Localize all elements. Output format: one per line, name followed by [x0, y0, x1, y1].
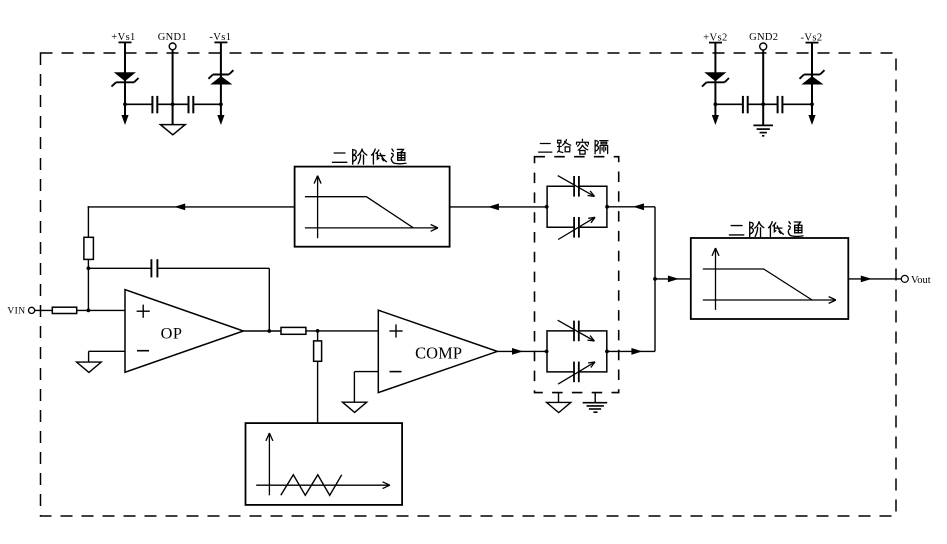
terminal tick +Vs1	[119, 41, 132, 43]
wire +Vs1 vertical	[124, 42, 126, 115]
wire R2 up to feedback corner	[87, 206, 89, 237]
node C at OP output	[267, 329, 271, 333]
outer dashed enclosure border	[41, 53, 897, 516]
label isolation section (er lu rong ge)	[539, 144, 552, 153]
wire R4 down to sweep generator block	[317, 361, 319, 423]
sweep generator block box	[246, 423, 403, 505]
isolation upper variable-capacitor pair unit	[547, 186, 607, 227]
svg-text:Vout: Vout	[911, 275, 931, 286]
wire isolation upper unit to right vertical bus	[607, 206, 655, 208]
wire GND2 vertical	[762, 50, 764, 125]
second low-pass vertical axis	[715, 248, 717, 310]
wire C3 to corner above node C	[157, 267, 269, 269]
second low-pass block box	[691, 238, 849, 319]
second low-pass horizontal axis	[703, 299, 836, 301]
ground symbol under GND1	[160, 125, 185, 135]
node -Vs2 junction	[810, 102, 814, 106]
wire OP inverting input to ground	[89, 350, 125, 352]
zener diode D4 on -Vs2	[801, 76, 823, 84]
node GND2 junction	[761, 102, 765, 106]
ground stub under isolation box right	[594, 393, 596, 403]
wire +Vs2 vertical	[714, 43, 716, 116]
wire decoupling bus left section	[125, 103, 152, 105]
chassis arrow below -Vs2	[808, 115, 815, 125]
resistor R4 to sweep generator	[314, 341, 322, 361]
arrow pointing right out of lower unit	[631, 348, 642, 355]
label second low-pass block (er jie di tong)	[729, 226, 743, 235]
COMP plus sign	[389, 330, 402, 332]
wire R1 to OP + input	[77, 309, 125, 311]
capacitor C2 (GND1 to -Vs1)	[188, 96, 190, 113]
ground symbol at COMP inverting input	[343, 402, 367, 412]
zener diode D2 on -Vs1	[210, 76, 232, 84]
wire node B to capacitor C3	[88, 267, 151, 269]
terminal tick -Vs1	[214, 41, 227, 43]
wire R3 to COMP + input	[306, 330, 378, 332]
wire COMP inverting input to ground	[354, 371, 378, 373]
triangle waveform	[281, 475, 342, 496]
svg-text:VIN: VIN	[7, 306, 25, 316]
capacitor C4 (+Vs2 to GND2)	[742, 96, 744, 113]
earth ground symbol under isolation box (hatched)	[583, 402, 608, 404]
capacitor C3 feedback	[150, 259, 152, 277]
node +Vs1/decoupling junction	[123, 102, 127, 106]
terminal circle GND1	[169, 43, 176, 50]
node +Vs2 junction	[714, 102, 718, 106]
wire OP output to R3	[243, 330, 281, 332]
wire second low-pass to Vout	[848, 278, 901, 280]
OP plus sign	[137, 310, 150, 312]
terminal circle VIN	[29, 307, 35, 313]
zener diode D3 on +Vs2	[704, 72, 726, 81]
arrow on output wire pointing right	[861, 276, 872, 283]
op-amp OP	[125, 290, 243, 373]
wire -Vs2 vertical	[811, 43, 813, 116]
wire node B to R2	[87, 259, 89, 268]
first low-pass horizontal axis	[305, 227, 438, 229]
ground symbol under isolation box (triangle)	[547, 402, 571, 412]
ground stub under isolation box left	[558, 393, 560, 403]
terminal circle GND2	[760, 43, 767, 50]
capacitor C5 (GND2 to -Vs2)	[777, 96, 779, 113]
node B feedback junction	[87, 266, 91, 270]
label first low-pass block (er jie di tong)	[332, 153, 346, 162]
second low-pass response curve	[703, 269, 812, 300]
wire VIN to R1	[35, 309, 53, 311]
isolation lower variable-capacitor pair unit	[547, 331, 607, 372]
svg-text:GND2: GND2	[749, 32, 778, 43]
svg-text:GND1: GND1	[158, 32, 187, 43]
comparator COMP	[378, 310, 497, 392]
arrow on that wire pointing right	[668, 276, 679, 283]
isolation dashed box	[535, 157, 619, 393]
capacitor C1 (+Vs1 to GND1)	[151, 96, 153, 113]
wire -Vs1 vertical	[220, 42, 222, 115]
wire decoupling bus right section	[715, 103, 743, 105]
wire bus node to second low-pass block	[655, 278, 691, 280]
svg-text:COMP: COMP	[415, 344, 462, 363]
node on right vertical bus	[653, 277, 657, 281]
chassis arrow below +Vs1	[121, 115, 128, 125]
ground symbol at OP inverting input	[77, 362, 102, 372]
chassis arrow below -Vs1	[217, 115, 224, 125]
sweep generator vertical axis	[268, 433, 270, 495]
first low-pass block box	[295, 167, 450, 247]
wire node D down to R4	[317, 331, 319, 341]
chassis arrow below +Vs2	[712, 115, 719, 125]
wire node A up to node B	[87, 268, 89, 310]
terminal tick +Vs2	[709, 42, 722, 44]
first low-pass vertical axis	[317, 176, 319, 239]
arrow on feedback wire pointing left	[174, 204, 185, 211]
zener diode D1 on +Vs1	[114, 72, 136, 81]
arrow on that wire pointing left	[488, 204, 499, 211]
resistor R3 between OP and COMP	[281, 327, 306, 334]
node A input junction	[87, 309, 91, 313]
terminal circle Vout	[901, 275, 908, 282]
COMP minus sign	[390, 371, 402, 373]
first low-pass response curve	[305, 197, 414, 228]
svg-text:OP: OP	[161, 323, 183, 342]
wire feedback top run	[88, 206, 295, 208]
node GND1 junction	[171, 102, 175, 106]
earth ground symbol under GND2	[753, 124, 773, 126]
OP minus sign	[137, 350, 149, 352]
right vertical bus wire	[654, 207, 656, 352]
resistor R1 input	[52, 307, 76, 313]
resistor R2 feedback	[84, 237, 94, 259]
wire down to node C	[268, 268, 270, 331]
wire first low-pass to isolation upper unit	[450, 206, 547, 208]
terminal tick -Vs2	[806, 42, 819, 44]
node -Vs1 junction	[219, 102, 223, 106]
node D before COMP	[316, 329, 320, 333]
arrow on COMP output wire pointing right	[512, 348, 523, 355]
arrow pointing left into upper unit	[633, 203, 644, 210]
wire isolation lower unit to right vertical bus	[607, 350, 655, 352]
sweep generator horizontal axis	[256, 484, 390, 486]
wire GND1 vertical	[172, 50, 174, 125]
wire COMP output to isolation lower unit	[497, 350, 546, 352]
